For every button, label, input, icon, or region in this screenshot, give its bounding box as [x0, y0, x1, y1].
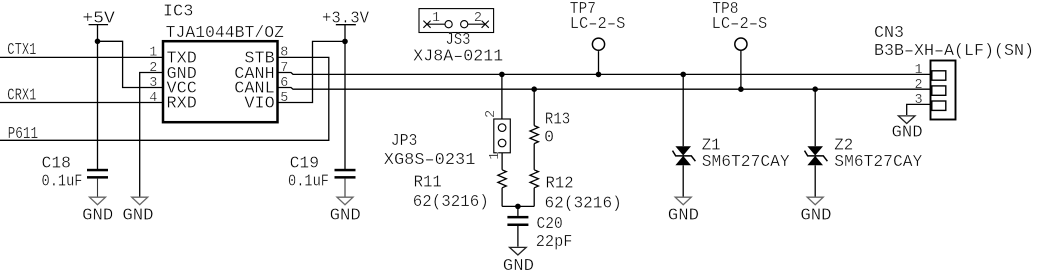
wire CRX1 net	[0, 102, 163, 104]
resistor R12	[530, 170, 538, 207]
svg-text:C19: C19	[290, 154, 320, 173]
node CANH-JP3 junction	[499, 72, 505, 78]
svg-text:0.1uF: 0.1uF	[288, 172, 329, 191]
svg-text:GND: GND	[330, 205, 361, 224]
svg-text:3: 3	[914, 93, 922, 108]
svg-text:+3.3V: +3.3V	[322, 9, 369, 28]
ground Z1	[668, 197, 699, 224]
ground IC3 pin2	[122, 197, 153, 224]
wire P611 net	[0, 57, 329, 140]
diode Z1 TVS	[673, 74, 696, 196]
wire CN3 pin3 to GND	[907, 104, 931, 115]
svg-text:CN3: CN3	[874, 23, 904, 42]
connector JS3	[419, 9, 494, 33]
wire R11-R12 join	[502, 205, 534, 207]
svg-text:LC–2–S: LC–2–S	[570, 14, 626, 33]
svg-text:GND: GND	[800, 205, 831, 224]
node C20 junction	[515, 204, 521, 210]
node CANL-Z2 junction	[812, 86, 818, 92]
capacitor C18	[87, 169, 108, 197]
svg-text:RXD: RXD	[167, 93, 197, 112]
node +5V junction	[95, 39, 101, 45]
wire CANL bus	[278, 88, 931, 90]
svg-text:VIO: VIO	[244, 93, 274, 112]
CN3 pin numbers	[914, 63, 922, 108]
svg-text:2: 2	[484, 110, 499, 118]
wire JP3 drop	[501, 74, 503, 119]
wire VIO to +3.3V	[278, 41, 346, 102]
resistor R13	[530, 89, 538, 170]
svg-text:R12: R12	[546, 173, 574, 192]
node CANH-Z1 junction	[680, 72, 686, 78]
svg-text:2: 2	[149, 61, 157, 76]
svg-text:P611: P611	[8, 124, 39, 143]
svg-text:JP3: JP3	[391, 131, 418, 150]
wire CANH bus	[278, 73, 931, 75]
svg-text:3: 3	[149, 76, 157, 91]
svg-text:7: 7	[280, 61, 288, 76]
ground C19	[330, 197, 361, 224]
connector JP3	[494, 119, 511, 153]
svg-text:GND: GND	[122, 205, 153, 224]
wire GND from pin2	[140, 73, 163, 197]
svg-text:R13: R13	[545, 110, 570, 129]
IC IC3 TJA1044BT/OZ box	[163, 41, 278, 122]
capacitor C20	[507, 206, 528, 246]
svg-text:SM6T27CAY: SM6T27CAY	[834, 152, 922, 171]
svg-text:SM6T27CAY: SM6T27CAY	[702, 152, 790, 171]
diode Z2 TVS	[805, 89, 828, 196]
JS3 pin numbers	[432, 11, 482, 26]
svg-text:1: 1	[488, 152, 503, 160]
svg-text:IC3: IC3	[163, 1, 194, 20]
svg-text:XG8S–0231: XG8S–0231	[384, 150, 476, 169]
svg-text:5: 5	[280, 91, 288, 106]
JP3 pin numbers rotated	[484, 110, 503, 160]
svg-text:62(3216): 62(3216)	[545, 193, 622, 212]
svg-text:B3B–XH–A(LF)(SN): B3B–XH–A(LF)(SN)	[874, 41, 1034, 60]
ground C18	[82, 197, 113, 224]
node +3.3V junction	[342, 39, 348, 45]
svg-text:8: 8	[280, 46, 288, 61]
svg-text:6: 6	[280, 76, 288, 91]
svg-text:C20: C20	[537, 214, 563, 233]
wire CTX1 net	[0, 56, 163, 58]
svg-text:CTX1: CTX1	[7, 40, 36, 59]
svg-text:2: 2	[474, 11, 482, 26]
capacitor C19	[335, 169, 356, 197]
test point TP7	[592, 38, 604, 77]
svg-text:1: 1	[432, 11, 440, 26]
svg-text:XJ8A–0211: XJ8A–0211	[413, 47, 503, 66]
ground CN3	[892, 116, 923, 142]
ground Z2	[800, 197, 831, 224]
svg-text:GND: GND	[503, 256, 534, 275]
svg-text:0: 0	[544, 128, 554, 147]
test point TP8	[735, 38, 747, 92]
svg-text:62(3216): 62(3216)	[413, 192, 489, 211]
svg-text:2: 2	[914, 78, 922, 93]
svg-text:GND: GND	[82, 205, 113, 224]
IC3 pin numbers	[149, 46, 288, 106]
node CANL-R13 junction	[531, 86, 537, 92]
connector CN3	[931, 61, 956, 120]
svg-text:+5V: +5V	[82, 9, 114, 28]
svg-text:TJA1044BT/OZ: TJA1044BT/OZ	[166, 23, 284, 42]
resistor R11	[498, 153, 506, 207]
svg-text:0.1uF: 0.1uF	[42, 172, 83, 191]
svg-text:C18: C18	[42, 154, 72, 173]
svg-text:R11: R11	[414, 172, 442, 191]
power +5V	[89, 25, 107, 169]
ground C20	[503, 247, 534, 275]
IC3 pin names	[167, 49, 275, 113]
svg-text:CRX1: CRX1	[7, 86, 36, 105]
power +3.3V	[337, 25, 356, 169]
svg-text:22pF: 22pF	[536, 232, 573, 251]
svg-text:GND: GND	[668, 205, 699, 224]
svg-text:1: 1	[149, 46, 157, 61]
svg-text:LC–2–S: LC–2–S	[712, 14, 768, 33]
svg-text:GND: GND	[892, 123, 923, 142]
svg-text:4: 4	[149, 91, 157, 106]
wire +5V to VCC	[98, 41, 164, 87]
svg-text:1: 1	[914, 63, 922, 78]
